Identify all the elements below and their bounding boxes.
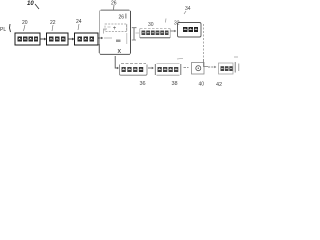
block F3 multiplier [192, 63, 205, 75]
wire F3-F4 [208, 66, 216, 68]
bracket output [234, 57, 239, 73]
numeral 38 [172, 81, 178, 87]
numeral 10 [27, 1, 39, 9]
numeral 34 [184, 6, 191, 14]
block C [75, 33, 99, 45]
svg-text:42: 42 [216, 82, 222, 86]
svg-text:36: 36 [140, 81, 146, 86]
wire C-container [99, 37, 104, 39]
svg-text:x: x [118, 48, 122, 55]
inner line [126, 24, 128, 31]
numeral 26 [111, 1, 117, 11]
wire A-B [41, 38, 47, 41]
leader above F2 [177, 58, 183, 61]
x label [118, 48, 122, 55]
dashed wire down [203, 24, 205, 59]
block A [15, 33, 40, 45]
block E [178, 23, 202, 38]
numeral 28 inside container [119, 14, 127, 21]
block F2 [155, 64, 181, 76]
short line right of F3 [204, 59, 209, 67]
container box [99, 10, 130, 55]
block D [140, 29, 170, 39]
wire F1-F2 [148, 67, 154, 69]
numeral 24 [76, 19, 82, 30]
svg-text:+: + [113, 26, 117, 32]
numeral 30 [148, 19, 166, 29]
inner summing block [104, 24, 127, 34]
svg-text:10: 10 [27, 1, 34, 7]
block B [47, 33, 69, 45]
svg-text:32: 32 [174, 21, 180, 27]
svg-text:38: 38 [172, 81, 178, 86]
numeral 36 [140, 81, 146, 87]
numeral 22 [50, 20, 56, 31]
wire F2-F3 [184, 67, 189, 69]
numeral 32 [174, 21, 180, 27]
wire B-C [69, 38, 75, 41]
inner block 2 [104, 33, 127, 44]
wire D-E [171, 30, 177, 32]
svg-text:30: 30 [148, 22, 154, 28]
svg-text:40: 40 [199, 82, 205, 87]
numeral 20 [22, 20, 28, 31]
block F4 [219, 63, 234, 74]
numeral 42 [216, 82, 222, 88]
block F1 [120, 64, 148, 76]
elbow wire down [115, 56, 119, 69]
svg-text:PL: PL [0, 27, 6, 33]
wire container-D [132, 28, 139, 40]
input label [0, 24, 11, 33]
svg-text:26: 26 [119, 15, 125, 21]
numeral 40 [199, 82, 205, 88]
